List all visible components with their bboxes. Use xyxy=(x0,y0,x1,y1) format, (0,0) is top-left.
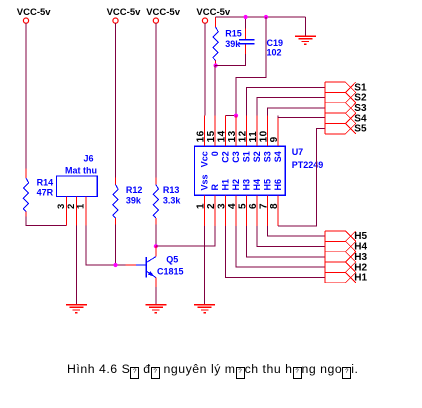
wire R15 bottom node to U7 pin 15 xyxy=(214,66,216,116)
svg-text:VCC-5v: VCC-5v xyxy=(196,7,231,18)
wire VCC2 to R12 xyxy=(115,23,117,177)
svg-text:2: 2 xyxy=(206,203,217,209)
resistor R15 39k xyxy=(215,17,217,27)
wire U7 pin 6 to H4 xyxy=(257,226,325,247)
junction pin13 top xyxy=(234,114,238,118)
svg-text:6: 6 xyxy=(248,203,259,209)
resistor R14 47R xyxy=(25,168,27,178)
svg-text:1: 1 xyxy=(76,203,87,209)
junction rail/C19 xyxy=(244,15,248,19)
svg-text:S5: S5 xyxy=(354,124,367,135)
svg-text:8: 8 xyxy=(269,203,280,209)
junction base node xyxy=(113,263,117,267)
U7 top pin 14 (C2) xyxy=(225,116,227,147)
U7 bottom pin 5 (H3) xyxy=(245,195,247,225)
wire VCC1 to R14 xyxy=(25,23,27,168)
U7 bottom pin 3 (H1) xyxy=(225,195,227,225)
svg-text:13: 13 xyxy=(227,130,238,142)
svg-text:Vcc: Vcc xyxy=(200,151,210,167)
J6 pin 3 xyxy=(65,197,67,226)
svg-text:R13: R13 xyxy=(163,185,180,195)
svg-text:4: 4 xyxy=(227,203,238,209)
wire U7 pin 7 to H5 xyxy=(267,226,325,236)
wire rail to top-right ground xyxy=(304,17,306,36)
svg-text:S3: S3 xyxy=(262,151,272,162)
junction R15/C19 bottom node xyxy=(214,63,218,67)
svg-text:C19: C19 xyxy=(267,38,284,48)
svg-text:3.3k: 3.3k xyxy=(163,195,182,205)
connector J6 Mat thu xyxy=(57,176,98,197)
wire pin14 tie xyxy=(226,115,237,117)
svg-text:14: 14 xyxy=(217,130,228,142)
IC U7 PT2249 body xyxy=(195,146,286,195)
power port VCC-5v (left, feeds R14) xyxy=(23,18,28,23)
svg-text:H5: H5 xyxy=(262,179,272,191)
U7 top pin 12 (S1) xyxy=(245,116,247,147)
svg-text:Vss: Vss xyxy=(200,174,210,190)
power port VCC-5v (feeds U7 pin 16) xyxy=(202,18,207,23)
J6 pin 2 xyxy=(75,197,77,226)
U7 bottom pin 7 (H5) xyxy=(266,195,268,225)
svg-text:S1: S1 xyxy=(241,151,251,162)
junction rail/drop wire xyxy=(264,15,268,19)
U7 top pin 16 (Vcc) xyxy=(204,116,206,147)
svg-text:3: 3 xyxy=(217,203,228,209)
svg-text:S2: S2 xyxy=(252,151,262,162)
svg-text:U7: U7 xyxy=(292,147,304,157)
junction collector node xyxy=(154,244,158,248)
svg-text:R15: R15 xyxy=(225,29,242,39)
svg-text:R12: R12 xyxy=(126,185,143,195)
U7 top pin 9 (S4) xyxy=(277,116,279,147)
svg-text:7: 7 xyxy=(258,203,269,209)
svg-text:C3: C3 xyxy=(231,151,241,163)
wire J6 pin 1 to Q5 base xyxy=(86,226,125,265)
wire rail drop to U7 pins 13/14 xyxy=(236,17,266,116)
ground top right xyxy=(295,35,316,37)
svg-text:5: 5 xyxy=(237,203,248,209)
U7 bottom pin 6 (H4) xyxy=(256,195,258,225)
svg-text:11: 11 xyxy=(248,131,259,143)
wire U7 pin 12 to S1 xyxy=(246,87,325,115)
svg-text:R14: R14 xyxy=(37,177,54,187)
U7 bottom pin 8 (H6) xyxy=(277,195,279,225)
wire U7 pin 5 to H3 xyxy=(246,226,325,257)
wire R14 bottom to J6 pin 3 xyxy=(26,217,66,226)
resistor R13 3.3k xyxy=(155,178,157,185)
wire U7 pin 4 to H2 xyxy=(236,226,325,267)
svg-text:R: R xyxy=(210,184,220,191)
wire VCC4 to U7 pin 16 xyxy=(204,23,206,115)
J6 pin 1 xyxy=(85,197,87,226)
wire J6 pin 2 to ground xyxy=(75,226,77,305)
svg-text:10: 10 xyxy=(258,130,269,142)
svg-text:102: 102 xyxy=(267,48,282,58)
wire R12 bottom to base node xyxy=(115,225,117,266)
wire U7 pin 1 to ground xyxy=(204,226,206,305)
svg-text:Mat thu: Mat thu xyxy=(65,166,97,176)
svg-text:12: 12 xyxy=(237,130,248,142)
svg-text:0: 0 xyxy=(210,151,220,156)
wire U7 pin 9 to S4 xyxy=(278,116,325,118)
wire Q5 emitter to ground xyxy=(155,287,157,305)
wire U7 pin 8 to S5 xyxy=(278,128,325,225)
svg-text:39k: 39k xyxy=(126,195,142,205)
svg-text:VCC-5v: VCC-5v xyxy=(107,7,142,18)
svg-text:H4: H4 xyxy=(252,179,262,191)
U7 top pin 10 (S3) xyxy=(266,116,268,147)
transistor Q5 C1815 xyxy=(155,246,157,256)
svg-text:VCC-5v: VCC-5v xyxy=(146,7,181,18)
svg-text:H6: H6 xyxy=(273,179,283,191)
svg-text:S4: S4 xyxy=(354,113,367,124)
svg-text:39k: 39k xyxy=(225,39,241,49)
svg-text:H3: H3 xyxy=(354,252,367,263)
svg-text:15: 15 xyxy=(206,130,217,142)
power port VCC-5v (feeds R13) xyxy=(153,18,158,23)
U7 top pin 15 (0) xyxy=(214,116,216,147)
power port VCC-5v (feeds R12) xyxy=(113,18,118,23)
wire top rail xyxy=(216,16,306,18)
wire U7 pin 10 to S3 xyxy=(267,108,325,116)
svg-text:47R: 47R xyxy=(37,187,54,197)
ground under J6 pin 2 xyxy=(66,304,87,306)
connector block H5-H1 xyxy=(325,231,356,283)
resistor R12 39k xyxy=(115,178,117,185)
U7 top pin 13 (C3) xyxy=(235,116,237,147)
connector block S1-S5 xyxy=(325,82,356,134)
wire collector node to U7 pin 2 xyxy=(156,226,215,246)
svg-text:H2: H2 xyxy=(231,179,241,191)
svg-text:H1: H1 xyxy=(221,179,231,191)
U7 bottom pin 4 (H2) xyxy=(235,195,237,225)
svg-text:J6: J6 xyxy=(84,153,94,163)
ground under U7 pin 1 xyxy=(194,304,215,306)
svg-text:S2: S2 xyxy=(354,93,367,104)
svg-text:C1815: C1815 xyxy=(157,267,184,277)
svg-text:9: 9 xyxy=(269,136,280,142)
svg-text:H5: H5 xyxy=(354,231,367,242)
wire U7 pin 3 to H1 xyxy=(226,226,326,278)
svg-text:PT2249: PT2249 xyxy=(292,160,324,170)
svg-text:16: 16 xyxy=(196,130,207,142)
capacitor C19 102 xyxy=(245,17,247,29)
wire C19 bottom to R15 node xyxy=(215,54,245,66)
wire U7 pin 11 to S2 xyxy=(257,98,325,116)
wire R13 bottom to collector node xyxy=(155,225,157,247)
U7 bottom pin 2 (R) xyxy=(214,195,216,225)
svg-text:H3: H3 xyxy=(241,179,251,191)
svg-text:1: 1 xyxy=(196,203,207,209)
svg-text:Q5: Q5 xyxy=(166,255,178,265)
U7 bottom pin 1 (Vss) xyxy=(204,195,206,225)
svg-text:C2: C2 xyxy=(221,151,231,163)
wire VCC3 to R13 xyxy=(155,23,157,177)
svg-text:H1: H1 xyxy=(354,273,367,284)
ground under Q5 emitter xyxy=(145,304,166,306)
svg-text:VCC-5v: VCC-5v xyxy=(17,7,52,18)
U7 top pin 11 (S2) xyxy=(256,116,258,147)
svg-text:S4: S4 xyxy=(273,151,283,162)
